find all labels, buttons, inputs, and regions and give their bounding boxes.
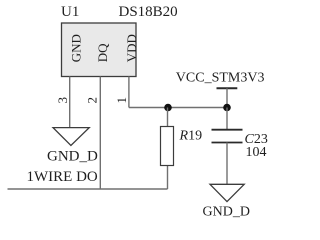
svg-text:1WIRE DO: 1WIRE DO (27, 169, 98, 185)
svg-text:GND_D: GND_D (47, 149, 98, 165)
ground symbol right (210, 184, 244, 201)
svg-text:DS18B20: DS18B20 (119, 4, 178, 20)
svg-text:U1: U1 (61, 4, 79, 20)
wire R19 bottom to net (167, 166, 169, 190)
svg-text:R19: R19 (179, 129, 203, 144)
wire VCC bar to rail (226, 88, 228, 107)
wire net 1WIRE_DO horizontal (8, 188, 168, 190)
svg-text:104: 104 (246, 145, 267, 160)
svg-text:VDD: VDD (124, 34, 139, 62)
wire VDD horizontal to VCC (129, 107, 227, 109)
svg-text:DQ: DQ (95, 43, 110, 62)
svg-text:3: 3 (55, 97, 70, 104)
wire pin 2 DQ (99, 77, 101, 190)
junction dot at R19 top (164, 104, 172, 112)
svg-text:VCC_STM3V3: VCC_STM3V3 (176, 71, 265, 86)
wire C23 bottom to ground (226, 143, 228, 185)
svg-text:GND: GND (69, 34, 84, 62)
svg-text:GND_D: GND_D (203, 205, 250, 220)
op body U1 rectangle (62, 23, 137, 77)
wire rail to C23 top (226, 108, 228, 130)
ground symbol left (53, 128, 89, 146)
svg-text:2: 2 (84, 97, 99, 104)
wire R19 top (167, 108, 169, 127)
junction dot at VCC/C23 (223, 104, 231, 112)
svg-text:1: 1 (114, 97, 129, 104)
capacitor C23 top plate (212, 129, 243, 131)
resistor R19 body (161, 127, 174, 166)
power symbol VCC bar (217, 87, 238, 89)
wire pin 3 (69, 77, 71, 128)
capacitor C23 bottom plate (212, 142, 243, 144)
wire pin 1 VDD vertical (128, 77, 130, 108)
